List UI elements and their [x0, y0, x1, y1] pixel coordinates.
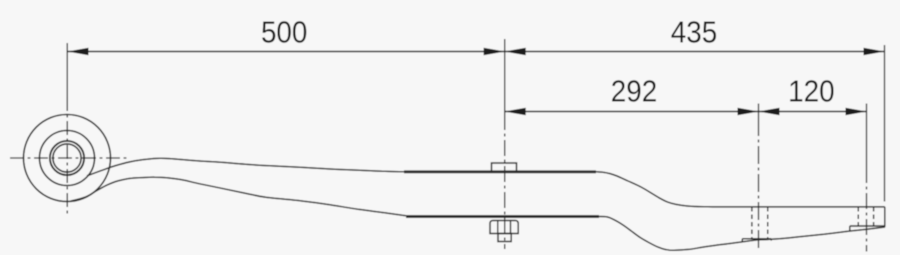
arrow 500 right: [484, 48, 505, 56]
bushing inner circle: [53, 144, 81, 172]
extension line right x884.5: [884, 45, 886, 202]
centerline pad1: [758, 118, 760, 251]
leaf top edge curve: [87, 158, 404, 176]
bolt tail: [498, 234, 511, 242]
leaf top thick middle line: [404, 170, 596, 173]
svg-text:500: 500: [261, 15, 308, 50]
dim 120 dimension line: [759, 111, 867, 113]
nut facet line right: [510, 221, 512, 234]
eye middle circle: [40, 131, 95, 186]
leaf top step-down curve: [596, 172, 885, 207]
end pad left edge: [849, 226, 851, 231]
arrow 292 left: [505, 108, 526, 116]
centerline vertical eye: [66, 97, 68, 216]
arrow 292 right: [738, 108, 759, 116]
dim 435 dimension line: [505, 51, 885, 53]
leaf bottom thick middle line: [406, 215, 599, 218]
center bolt nut: [490, 221, 518, 234]
pad1 top line: [742, 238, 771, 240]
extension line x866.5: [866, 104, 868, 168]
leaf bottom step-down curve: [599, 217, 757, 251]
pad1 right edge: [770, 239, 772, 241]
arrow 500 left: [68, 48, 89, 56]
dim 292 dimension line: [505, 111, 759, 113]
centerline center bolt: [504, 114, 506, 249]
pad1 left edge: [741, 239, 743, 243]
bushing outer circle: [50, 141, 84, 175]
pad1 hidden line left: [751, 207, 753, 239]
end pad hidden line right: [873, 207, 875, 226]
centerline horizontal eye: [10, 157, 130, 159]
extension line center x504.7: [504, 39, 506, 114]
svg-text:292: 292: [611, 74, 658, 109]
pad1 hidden line right: [767, 207, 769, 239]
svg-text:120: 120: [788, 74, 835, 109]
leaf right end edge: [884, 207, 886, 227]
eye outer wrap circle: [24, 115, 111, 202]
centerline end pad: [866, 167, 868, 252]
arrow 435 left: [505, 48, 526, 56]
dim 500 dimension line: [68, 51, 505, 53]
arrow 435 right: [864, 48, 885, 56]
arrow 120 left: [759, 108, 780, 116]
leaf bottom edge curve: [70, 177, 406, 216]
end pad hidden line left: [857, 207, 859, 226]
center bolt head: [492, 163, 517, 172]
nut facet line left: [497, 221, 499, 234]
arrow 120 right: [846, 108, 867, 116]
end pad top line: [850, 225, 885, 227]
extension line left x67: [66, 43, 68, 97]
leaf bottom taper slant: [757, 227, 885, 240]
svg-text:435: 435: [671, 15, 718, 50]
extension line x758.5: [758, 104, 760, 119]
